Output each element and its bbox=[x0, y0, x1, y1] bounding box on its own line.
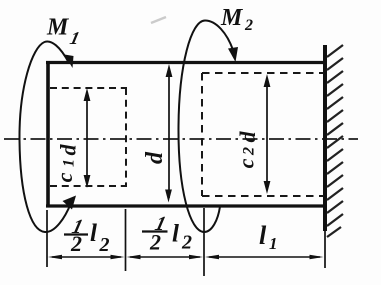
svg-text:l: l bbox=[259, 221, 267, 250]
label c2d (rotated) bbox=[234, 131, 261, 169]
shaft bottom edge bbox=[46, 204, 326, 207]
label 1/2 l2 (left) bbox=[64, 216, 110, 256]
dimension line half l2 (left) bbox=[48, 255, 125, 260]
svg-text:M: M bbox=[46, 15, 70, 41]
bore c1d dashed outline bbox=[50, 88, 127, 186]
svg-text:2: 2 bbox=[244, 17, 253, 34]
svg-text:2: 2 bbox=[241, 147, 258, 156]
centerline (dash-dot axis) bbox=[4, 138, 358, 140]
svg-text:2: 2 bbox=[99, 234, 110, 256]
extension line below wall bbox=[324, 231, 326, 268]
svg-text:c: c bbox=[234, 158, 259, 168]
fixed wall line bbox=[323, 45, 327, 231]
extension line left (below shaft left end) bbox=[46, 210, 48, 267]
dimension arrow d (vertical, double headed, full diameter) bbox=[165, 64, 172, 203]
svg-text:c: c bbox=[52, 172, 77, 182]
extension line at half l2 bbox=[125, 209, 127, 271]
label 1/2 l2 (middle) bbox=[142, 213, 192, 254]
svg-text:M: M bbox=[220, 5, 244, 31]
svg-text:2: 2 bbox=[149, 230, 161, 255]
svg-text:1: 1 bbox=[61, 159, 78, 167]
label c1d (rotated) bbox=[52, 144, 81, 183]
svg-text:d: d bbox=[235, 131, 260, 143]
svg-text:l: l bbox=[90, 220, 97, 247]
shaft top edge bbox=[46, 61, 326, 64]
svg-text:l: l bbox=[172, 221, 179, 248]
svg-text:2: 2 bbox=[70, 231, 82, 256]
shaft left end face bbox=[46, 61, 50, 208]
svg-text:d: d bbox=[56, 144, 81, 156]
label l1 bbox=[259, 221, 278, 253]
dimension line half l2 (middle) bbox=[127, 255, 204, 260]
dimension arrow c2d (vertical, double headed) bbox=[264, 74, 271, 194]
extension line at l2/l1 boundary bbox=[203, 208, 205, 276]
moment arrow M1 (open loop around left end, arrowheads both ends) bbox=[19, 41, 76, 232]
svg-text:1: 1 bbox=[269, 234, 278, 253]
moment arrow M2 (ellipse loop around shaft with top curl arrowhead) bbox=[178, 21, 238, 233]
svg-text:d: d bbox=[142, 151, 168, 164]
wall hatching bbox=[327, 45, 343, 237]
svg-text:2: 2 bbox=[181, 232, 192, 254]
dimension line l1 bbox=[205, 255, 324, 260]
bore c2d dashed outline bbox=[202, 73, 324, 196]
dimension arrow c1d (vertical, double headed) bbox=[84, 88, 91, 188]
